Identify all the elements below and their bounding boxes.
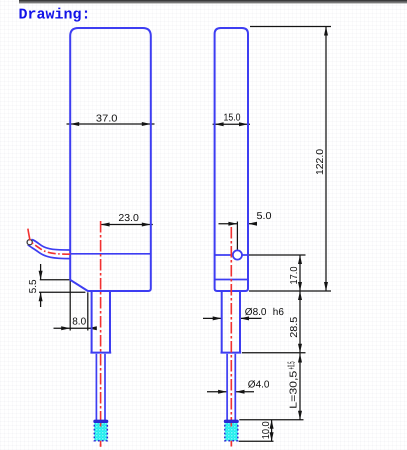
left view body outline xyxy=(70,28,151,291)
left view shaft 8mm xyxy=(90,291,111,353)
svg-text:28.5: 28.5 xyxy=(289,316,300,337)
dimension 5.0 (hole offset) xyxy=(219,211,272,252)
right view lower section line xyxy=(215,279,248,281)
svg-text:+0.5: +0.5 xyxy=(287,361,298,369)
right view centerline red xyxy=(230,227,232,447)
dimension 15.0 (right view width) xyxy=(213,113,250,127)
label diameter 4.0 with leader xyxy=(207,380,270,394)
right view upper section line xyxy=(215,254,248,256)
cable end cap xyxy=(27,240,32,245)
svg-text:10.0: 10.0 xyxy=(261,421,272,439)
svg-text:17.0: 17.0 xyxy=(289,266,300,284)
right view rod 4mm xyxy=(227,354,235,420)
right view shaft 8mm xyxy=(221,291,242,353)
svg-text:5.0: 5.0 xyxy=(257,211,272,222)
dimension 122.0 (overall height) xyxy=(250,27,331,292)
svg-text:37.0: 37.0 xyxy=(96,113,118,124)
svg-text:L=30,5: L=30,5 xyxy=(289,370,300,409)
svg-text:23.0: 23.0 xyxy=(118,213,139,224)
dimension 37.0 (left view width) xyxy=(67,113,155,126)
cable outline xyxy=(28,240,70,259)
dimension 17.0 xyxy=(249,255,331,291)
dimension 8.0 (chamfer run) xyxy=(54,280,97,331)
top border bar xyxy=(19,0,407,3)
dimension 10.0 (tip length) xyxy=(239,420,274,442)
dimension 23.0 (center to right edge) xyxy=(101,213,153,227)
svg-text:122.0: 122.0 xyxy=(315,149,326,175)
svg-text:Ø8.0: Ø8.0 xyxy=(245,307,267,318)
hole circle xyxy=(233,250,242,259)
dimension L=30,5 +0.5 xyxy=(239,353,303,420)
dimension 28.5 xyxy=(242,291,306,353)
label diameter 8.0 h6 with leader xyxy=(203,307,284,321)
left view centerline red xyxy=(100,221,102,448)
right view tip xyxy=(225,421,238,446)
svg-text:Ø4.0: Ø4.0 xyxy=(248,380,270,391)
svg-text:Drawing:: Drawing: xyxy=(19,6,91,23)
cable center line red xyxy=(28,229,70,255)
svg-text:h6: h6 xyxy=(273,307,285,318)
left view rod 4mm xyxy=(96,354,105,420)
svg-text:8.0: 8.0 xyxy=(72,316,86,327)
dimension 5.5 (chamfer height) xyxy=(28,264,85,307)
left view tip xyxy=(94,421,107,447)
svg-text:15.0: 15.0 xyxy=(224,113,241,124)
left view cable attach line xyxy=(70,253,151,255)
svg-text:5.5: 5.5 xyxy=(28,279,39,293)
right view body outline xyxy=(215,28,248,291)
